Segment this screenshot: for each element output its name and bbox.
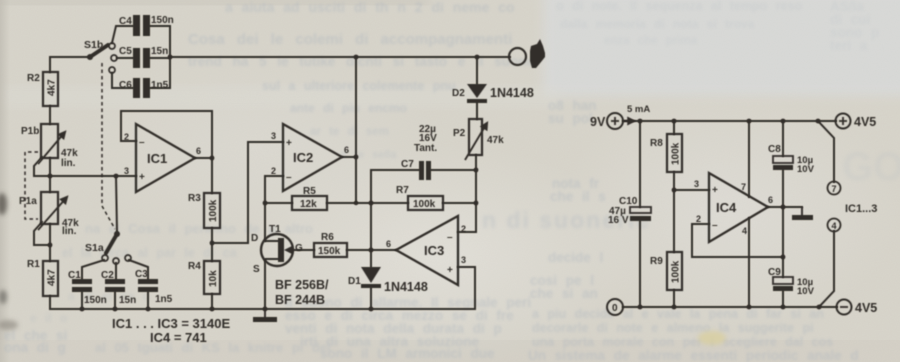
svg-text:decorarle di note e almeno la: decorarle di note e almeno la suggerite … bbox=[532, 321, 814, 335]
svg-text:G: G bbox=[295, 243, 303, 254]
svg-text:D1: D1 bbox=[348, 276, 361, 287]
svg-text:100k: 100k bbox=[671, 142, 682, 165]
wire: link to circled pin4 bbox=[819, 231, 834, 307]
capacitor C5 bbox=[133, 48, 150, 68]
wire: D2 to P2 bbox=[476, 102, 478, 119]
switch S1b bbox=[87, 43, 117, 73]
svg-text:D: D bbox=[251, 233, 258, 244]
svg-text:5 mA: 5 mA bbox=[627, 104, 650, 115]
svg-text:ante di piu encmo: ante di piu encmo bbox=[290, 101, 407, 115]
svg-text:6: 6 bbox=[386, 239, 391, 249]
svg-text:ar te di sem: ar te di sem bbox=[310, 126, 389, 138]
wire: supply top rail bbox=[623, 120, 836, 122]
svg-text:BF 244B: BF 244B bbox=[275, 293, 325, 307]
svg-text:2: 2 bbox=[271, 166, 276, 176]
wire: S1a contact to C3 bbox=[129, 260, 148, 279]
svg-text:4V5: 4V5 bbox=[854, 115, 876, 129]
diode D2 bbox=[467, 84, 487, 103]
svg-text:P2: P2 bbox=[453, 128, 466, 139]
ground at T1 source bbox=[253, 309, 277, 322]
svg-text:R1: R1 bbox=[27, 259, 40, 270]
svg-text:7: 7 bbox=[741, 182, 746, 192]
svg-text:4k7: 4k7 bbox=[47, 269, 58, 286]
wire: IC2 pin2 down to T1 drain bbox=[265, 176, 283, 241]
svg-text:1N4148: 1N4148 bbox=[384, 280, 428, 294]
svg-text:12k: 12k bbox=[300, 199, 317, 210]
svg-text:teri a: teri a bbox=[830, 38, 868, 53]
circled pin 4 bbox=[828, 219, 841, 232]
wire: AGC node vertical to IC3 pin2 bbox=[458, 170, 476, 232]
svg-text:al 05 tguati di KS la knitre p: al 05 tguati di KS la knitre pi del bbox=[95, 340, 331, 355]
svg-text:a aiuta ad usciti di th n 2 di: a aiuta ad usciti di th n 2 di neme co bbox=[225, 0, 515, 15]
virtual ground at IC4 output bbox=[792, 207, 813, 220]
svg-text:–: – bbox=[286, 172, 292, 183]
svg-text:–: – bbox=[447, 232, 453, 243]
svg-text:P1b: P1b bbox=[21, 126, 39, 137]
junction dots left circuit bbox=[48, 55, 480, 312]
resistor R4 bbox=[204, 261, 220, 294]
svg-text:2: 2 bbox=[696, 214, 701, 224]
svg-text:R7: R7 bbox=[396, 185, 409, 196]
svg-text:47k: 47k bbox=[487, 135, 504, 146]
wire: P2 bottom lead bbox=[475, 155, 477, 170]
wire: bottom ground rail bbox=[50, 308, 475, 310]
capacitor C10 electrolytic bbox=[630, 207, 651, 221]
wire: S1a contact to C2 bbox=[115, 263, 117, 279]
svg-text:IC4: IC4 bbox=[716, 200, 737, 215]
svg-text:sono il LM armonici due: sono il LM armonici due bbox=[320, 346, 495, 361]
wire: IC1 feedback loop bbox=[121, 111, 212, 158]
svg-text:T1: T1 bbox=[269, 224, 281, 235]
svg-text:6: 6 bbox=[768, 195, 773, 205]
wire: R6 to IC3 output bbox=[347, 249, 396, 251]
transistor T1 FET bbox=[261, 234, 293, 266]
capacitor C2 bbox=[105, 279, 125, 292]
svg-text:2: 2 bbox=[124, 132, 129, 142]
svg-text:D2: D2 bbox=[452, 88, 465, 99]
svg-text:100k: 100k bbox=[208, 199, 219, 222]
capacitor C7 tantalum bbox=[419, 161, 431, 180]
dashed gang link P1a/P1b bbox=[25, 152, 38, 219]
potentiometer P1a bbox=[38, 192, 67, 230]
svg-text:S1a: S1a bbox=[85, 242, 104, 254]
wire: IC1 output to R3 bbox=[194, 158, 212, 193]
dashed gang link S1a/S1b bbox=[102, 63, 115, 229]
svg-text:Cosa dei le colemi di accompag: Cosa dei le colemi di accompagnamenti bbox=[188, 31, 512, 48]
wire: IC4 pin7 supply bbox=[748, 121, 750, 197]
svg-text:+: + bbox=[712, 185, 718, 196]
svg-text:10V: 10V bbox=[797, 286, 815, 297]
svg-text:R2: R2 bbox=[27, 73, 40, 84]
svg-text:4: 4 bbox=[832, 221, 837, 231]
wire: supply bottom rail bbox=[623, 306, 837, 308]
wire: R2 to P1b bbox=[49, 106, 51, 124]
svg-text:6: 6 bbox=[344, 145, 349, 155]
svg-text:0: 0 bbox=[612, 303, 618, 314]
op-amp IC4 bbox=[694, 173, 773, 242]
svg-text:R5: R5 bbox=[303, 186, 316, 197]
wire: C4 right lead bbox=[150, 25, 170, 27]
wire: IC4 pin3 lead bbox=[674, 189, 709, 191]
svg-text:lin.: lin. bbox=[61, 158, 76, 169]
svg-text:2: 2 bbox=[461, 224, 466, 234]
wire: P1a wiper tie-down bbox=[34, 222, 50, 245]
wire: C8 C9 branch bbox=[782, 121, 784, 307]
wire: C10 branch bbox=[639, 121, 641, 307]
svg-text:C4: C4 bbox=[119, 16, 132, 27]
wire: cap bus vertical bbox=[169, 26, 171, 88]
svg-text:una porta morale con per i sce: una porta morale con per i scegliere dal… bbox=[532, 335, 833, 349]
capacitor C1 bbox=[72, 279, 92, 292]
circled pin 7 bbox=[828, 182, 841, 195]
wire: S1a contact to C1 bbox=[82, 260, 104, 279]
wire: S1b pole from R2 top bbox=[50, 57, 89, 72]
wire: C5 contact to C5 bbox=[117, 57, 133, 59]
wire: top output rail bbox=[170, 56, 510, 58]
resistor R1 bbox=[43, 261, 58, 296]
svg-text:IC2: IC2 bbox=[293, 150, 313, 165]
svg-text:ona di g: ona di g bbox=[4, 340, 66, 355]
svg-text:IC4 = 741: IC4 = 741 bbox=[150, 330, 207, 345]
wire: IC4 pin4 supply bbox=[748, 218, 750, 307]
svg-text:3: 3 bbox=[124, 166, 129, 176]
svg-text:15n: 15n bbox=[119, 295, 136, 306]
svg-text:–: – bbox=[712, 220, 718, 231]
svg-text:100k: 100k bbox=[413, 199, 436, 210]
wire: link to circled pin7 bbox=[818, 121, 834, 182]
svg-text:16 V: 16 V bbox=[608, 215, 629, 226]
resistor R2 bbox=[43, 72, 58, 106]
terminal 0V bbox=[607, 299, 623, 315]
op-amp IC1 bbox=[124, 124, 201, 192]
terminal +4V5 bbox=[836, 114, 851, 129]
svg-text:R3: R3 bbox=[188, 193, 201, 204]
svg-text:o di note. Il sequenza al temp: o di note. Il sequenza al tempo reso bbox=[556, 0, 803, 13]
svg-text:Tant.: Tant. bbox=[414, 143, 437, 154]
svg-text:R4: R4 bbox=[188, 261, 201, 272]
svg-text:3: 3 bbox=[271, 131, 276, 141]
svg-text:decide l: decide l bbox=[548, 250, 603, 265]
svg-text:100k: 100k bbox=[671, 260, 682, 283]
wire: R9 leads bbox=[673, 190, 675, 307]
svg-text:BF 256B/: BF 256B/ bbox=[275, 278, 329, 292]
svg-text:su pol: su pol bbox=[548, 111, 593, 126]
svg-text:Un sistema de alarme essenti p: Un sistema de alarme essenti periodic an… bbox=[528, 348, 859, 362]
capacitor C9 electrolytic bbox=[773, 277, 793, 291]
svg-text:150n: 150n bbox=[84, 295, 107, 306]
wire: R5 feedback line bbox=[265, 202, 476, 204]
svg-text:15n: 15n bbox=[151, 46, 168, 57]
wire: IC1 pin3 line bbox=[50, 175, 136, 177]
resistor R5 bbox=[292, 196, 327, 210]
svg-text:1n5: 1n5 bbox=[151, 80, 169, 91]
wire: P1b to P1a through node bbox=[49, 158, 51, 192]
capacitor C8 electrolytic bbox=[773, 156, 793, 170]
wire: IC4 output bbox=[767, 206, 802, 208]
wire: P1a to R1 bbox=[49, 224, 51, 261]
resistor R8 bbox=[667, 134, 682, 172]
wire: S1a pole drop bbox=[116, 176, 117, 232]
svg-text:C2: C2 bbox=[101, 270, 114, 281]
wire: T1 source to rail bbox=[264, 260, 266, 309]
potentiometer P2 bbox=[465, 119, 487, 160]
svg-text:IC1: IC1 bbox=[147, 151, 167, 166]
svg-text:–: – bbox=[139, 137, 145, 148]
svg-text:che si an: che si an bbox=[530, 286, 598, 301]
svg-text:+: + bbox=[139, 172, 145, 183]
terminal 9V plus bbox=[607, 113, 634, 129]
svg-text:e il o: e il o bbox=[30, 311, 67, 325]
wire: D1 to rail bbox=[370, 288, 372, 309]
op-amp IC3 (left facing) bbox=[386, 216, 466, 285]
svg-text:4: 4 bbox=[742, 226, 747, 236]
svg-text:10V: 10V bbox=[797, 164, 815, 175]
capacitor C3 bbox=[138, 279, 158, 292]
wire: R4 to rail bbox=[211, 294, 213, 309]
wire: C6 contact to C6 bbox=[112, 73, 133, 88]
wire: R3 to R4 bbox=[211, 228, 213, 261]
svg-text:dalla memoria di nota si trova: dalla memoria di nota si trova bbox=[560, 17, 755, 31]
potentiometer P1b bbox=[38, 124, 65, 164]
svg-text:C9: C9 bbox=[768, 267, 781, 278]
svg-text:10k: 10k bbox=[208, 270, 219, 287]
terminal -4V5 bbox=[837, 300, 852, 315]
junction dots supply bbox=[638, 119, 822, 310]
wire: IC3 pin3 to rail end bbox=[458, 267, 475, 309]
capacitor C6 bbox=[133, 78, 150, 98]
svg-text:C5: C5 bbox=[119, 46, 132, 57]
switch S1a bbox=[102, 231, 131, 264]
svg-text:C3: C3 bbox=[135, 269, 148, 280]
svg-text:150n: 150n bbox=[151, 15, 174, 26]
svg-text:7: 7 bbox=[832, 184, 837, 194]
svg-text:+: + bbox=[447, 265, 453, 276]
svg-text:GO: GO bbox=[842, 145, 900, 189]
svg-text:C6: C6 bbox=[119, 80, 132, 91]
svg-text:C7: C7 bbox=[401, 159, 414, 170]
capacitor C4 bbox=[133, 15, 150, 36]
svg-text:3: 3 bbox=[694, 179, 699, 189]
diode D1 bbox=[361, 267, 381, 288]
svg-text:P1a: P1a bbox=[19, 196, 37, 207]
svg-text:1n5: 1n5 bbox=[155, 294, 173, 305]
op-amp IC2 bbox=[271, 124, 349, 191]
wire: D2 top lead bbox=[476, 57, 478, 84]
svg-text:C1: C1 bbox=[68, 270, 81, 281]
wire: C5 right lead bbox=[150, 57, 170, 59]
resistor R7 bbox=[408, 196, 443, 210]
svg-text:IC1...3: IC1...3 bbox=[845, 203, 877, 215]
svg-text:9V: 9V bbox=[590, 115, 606, 129]
svg-text:S1b: S1b bbox=[84, 39, 103, 51]
svg-text:IC1 . . . IC3 = 3140E: IC1 . . . IC3 = 3140E bbox=[112, 316, 230, 331]
resistor R3 bbox=[204, 193, 220, 228]
wire: C1 C2 C3 bottoms bbox=[82, 292, 148, 309]
wire: P1b wiper tie-down bbox=[34, 157, 50, 176]
wire: IC4 feedback to output node bbox=[692, 224, 783, 257]
svg-text:1N4148: 1N4148 bbox=[490, 86, 534, 100]
svg-text:C8: C8 bbox=[768, 144, 781, 155]
wire: C7 branch vertical bbox=[370, 170, 372, 267]
wire: C7 leads bbox=[371, 169, 476, 171]
svg-text:4k7: 4k7 bbox=[47, 79, 58, 96]
svg-text:enza che prima: enza che prima bbox=[604, 35, 698, 47]
svg-text:a piu decide al e vale la pena: a piu decide al e vale la pena di far si… bbox=[532, 307, 824, 321]
svg-text:che il s: che il s bbox=[550, 189, 606, 204]
svg-text:R8: R8 bbox=[650, 138, 663, 149]
wire: T1 gate to R6 bbox=[293, 249, 314, 251]
svg-text:sul a ulteriore colemente pnu: sul a ulteriore colemente pnu bbox=[262, 79, 456, 93]
svg-text:4V5: 4V5 bbox=[855, 301, 877, 315]
svg-text:3: 3 bbox=[461, 255, 466, 265]
wire: R1 to bottom rail bbox=[49, 296, 51, 309]
resistor R6 bbox=[314, 243, 347, 257]
svg-text:S: S bbox=[253, 264, 260, 275]
svg-text:lin.: lin. bbox=[62, 226, 77, 237]
output terminal bbox=[509, 39, 545, 68]
wire: IC2 output junction bbox=[342, 57, 356, 203]
svg-text:IC3: IC3 bbox=[424, 243, 444, 258]
wire: C4 contact to C4 bbox=[112, 26, 133, 43]
svg-text:6: 6 bbox=[196, 146, 201, 156]
wire: divider tap to IC2 pin3 bbox=[212, 142, 283, 243]
svg-text:150k: 150k bbox=[318, 246, 341, 257]
svg-text:+: + bbox=[286, 138, 292, 149]
svg-text:R6: R6 bbox=[321, 232, 334, 243]
svg-text:R9: R9 bbox=[650, 256, 663, 267]
resistor R9 bbox=[667, 252, 682, 290]
edge smudges bbox=[0, 193, 726, 345]
wire: C6 right lead bbox=[150, 87, 170, 89]
wire: R8 leads bbox=[673, 121, 675, 190]
ghost heading bleed bbox=[482, 145, 900, 233]
